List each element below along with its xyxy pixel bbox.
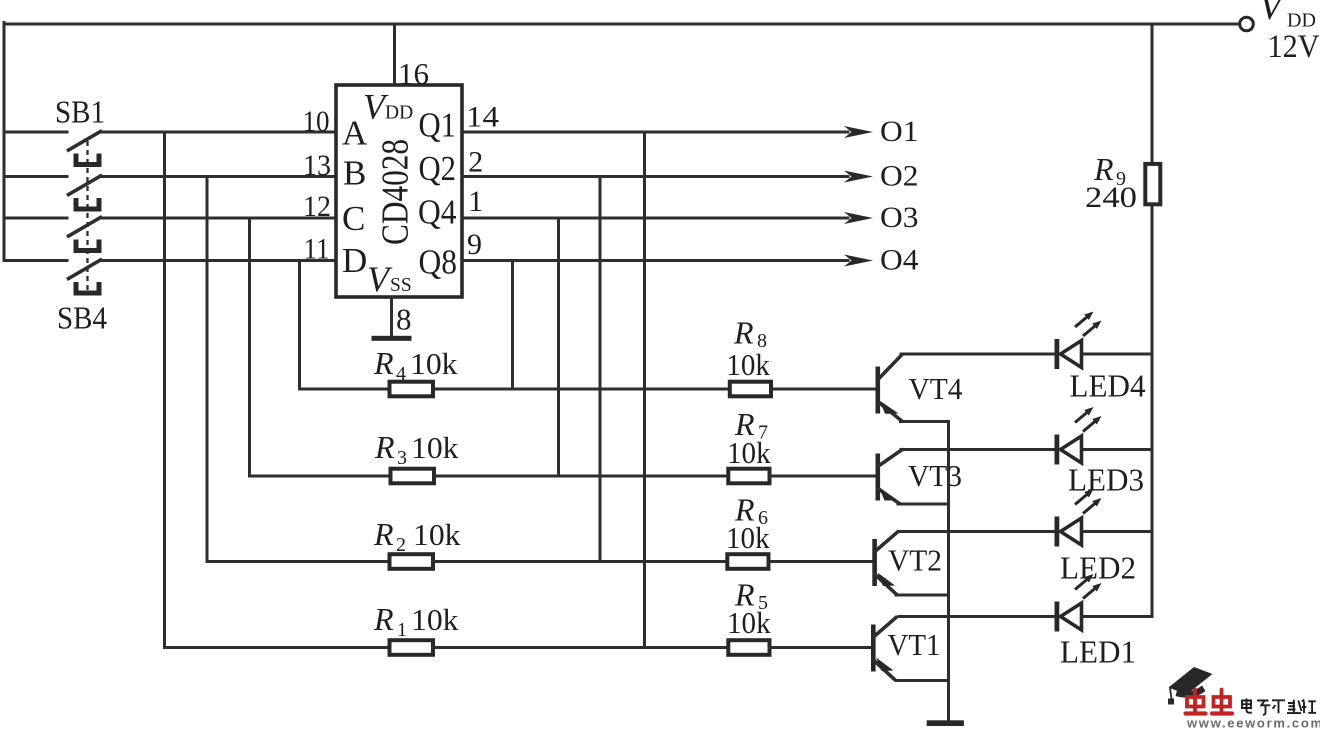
watermark logo: graduation cap xyxy=(1168,667,1213,705)
wire: +12V rail to R9 xyxy=(1151,24,1154,163)
wire: row R2 left xyxy=(207,560,390,563)
wire: R8 to VT4 base xyxy=(771,388,876,391)
label R5 xyxy=(734,577,768,615)
watermark text 虫虫 (drawn) xyxy=(1186,690,1233,714)
svg-text:2: 2 xyxy=(468,145,483,178)
transistor VT2 xyxy=(872,532,897,594)
svg-text:10k: 10k xyxy=(726,347,770,382)
IC U1 CD4028 body xyxy=(336,85,462,297)
svg-text:DD: DD xyxy=(385,103,413,124)
svg-text:O1: O1 xyxy=(880,115,919,148)
svg-text:CD4028: CD4028 xyxy=(375,139,417,245)
wire: pin 8 VSS to ground xyxy=(390,297,393,337)
wire: SB1 to IC pin A xyxy=(101,131,336,134)
ground xyxy=(927,720,964,726)
wire: VT2 collector to LED2 xyxy=(899,530,1055,533)
svg-text:2: 2 xyxy=(396,534,406,556)
svg-text:3: 3 xyxy=(397,447,407,469)
resistor R1 xyxy=(390,640,434,655)
wire: Q4 drop to R3 row xyxy=(557,218,560,476)
svg-text:C: C xyxy=(342,199,365,238)
svg-text:8: 8 xyxy=(396,302,412,337)
label R1 10k xyxy=(373,601,459,641)
IC pin label VSS xyxy=(367,259,412,299)
wire: pin 16 to +12V rail xyxy=(393,24,396,85)
svg-text:10k: 10k xyxy=(727,435,771,470)
wire: VT1 collector to LED1 xyxy=(899,615,1055,618)
watermark text 电子下载站 (drawn) xyxy=(1242,699,1316,715)
wire: ganged pushbutton link (dashed) xyxy=(86,141,88,294)
wire: Q2 drop to R2 row xyxy=(599,177,602,562)
LED LED3 xyxy=(1055,407,1102,465)
wire: emitter common rail xyxy=(947,422,950,722)
svg-text:4: 4 xyxy=(396,363,406,385)
wire: row R4 left xyxy=(300,388,391,391)
wire: Q2 output row xyxy=(462,171,873,183)
resistor R8 xyxy=(730,382,771,397)
svg-text:O3: O3 xyxy=(880,201,919,234)
svg-text:1: 1 xyxy=(397,619,407,641)
resistor R3 xyxy=(391,469,435,484)
resistor R7 xyxy=(728,469,769,484)
wire: LED1 anode to bus xyxy=(1082,615,1153,618)
wire: R6 to VT2 base xyxy=(769,560,875,563)
svg-text:12V: 12V xyxy=(1268,29,1320,65)
svg-text:10k: 10k xyxy=(413,517,461,552)
label R6 xyxy=(734,492,768,530)
wire: Q8 output row xyxy=(462,255,873,267)
svg-text:SB4: SB4 xyxy=(57,300,107,336)
wire: node C drop to R3 row xyxy=(248,218,251,476)
label R9 240 xyxy=(1085,151,1137,214)
pushbutton SB4 xyxy=(69,260,101,293)
wire: R7 to VT3 base xyxy=(770,475,877,478)
wire: VT4 emitter to rail xyxy=(901,420,949,423)
svg-text:O4: O4 xyxy=(880,244,919,277)
svg-text:10k: 10k xyxy=(411,602,459,637)
resistor R4 xyxy=(390,382,434,397)
svg-text:V: V xyxy=(1259,0,1286,28)
LED LED1 xyxy=(1055,574,1102,632)
ground (VSS pin 8) xyxy=(372,336,412,341)
wire: R2 to R6 xyxy=(433,560,728,563)
svg-text:R: R xyxy=(373,516,394,552)
label R2 10k xyxy=(373,516,461,556)
wire: Q4 output row xyxy=(462,212,873,224)
label R4 10k xyxy=(373,345,458,385)
wire: left supply rail xyxy=(3,23,6,261)
wire: VT3 emitter to rail xyxy=(898,503,949,506)
svg-text:LED4: LED4 xyxy=(1070,368,1146,404)
transistor VT1 xyxy=(871,618,896,680)
wire: Q1 output row xyxy=(462,126,873,138)
wire: +12V top rail xyxy=(4,23,1240,26)
svg-text:10: 10 xyxy=(303,105,330,138)
pushbutton SB2 xyxy=(69,176,101,209)
wire: node D drop to R4 row xyxy=(298,261,301,390)
wire: row C from rail to SB3 xyxy=(4,217,67,220)
wire: VT3 collector to LED3 xyxy=(901,448,1055,451)
svg-text:LED3: LED3 xyxy=(1068,462,1144,498)
wire: VT1 emitter to rail xyxy=(896,679,949,682)
svg-text:A: A xyxy=(342,113,368,152)
svg-text:16: 16 xyxy=(398,56,429,91)
IC pin label VDD xyxy=(363,87,413,127)
wire: row A from rail to SB1 xyxy=(4,131,67,134)
svg-text:R: R xyxy=(373,601,394,637)
wire: node A drop to R1 row xyxy=(163,132,166,648)
net label VDD 12V xyxy=(1259,0,1320,65)
wire: R5 to VT1 base xyxy=(770,646,875,649)
svg-text:SB1: SB1 xyxy=(55,94,105,130)
wire: VT2 emitter to rail xyxy=(896,594,949,597)
transistor VT4 xyxy=(876,355,902,420)
svg-text:www.eeworm.com: www.eeworm.com xyxy=(1186,716,1320,729)
svg-text:14: 14 xyxy=(466,101,499,134)
svg-text:10k: 10k xyxy=(411,430,459,465)
wire: LED3 anode to bus xyxy=(1082,448,1153,451)
wire: LED anode bus xyxy=(1151,204,1154,617)
svg-text:LED1: LED1 xyxy=(1060,634,1136,670)
svg-text:D: D xyxy=(342,241,367,280)
svg-text:R: R xyxy=(374,429,395,465)
wire: SB4 to IC pin D xyxy=(101,259,336,262)
wire: LED4 anode to bus xyxy=(1082,353,1153,356)
pushbutton SB1 xyxy=(69,132,101,165)
wire: Q8 drop to R4 row xyxy=(511,261,514,390)
VDD supply terminal xyxy=(1240,17,1254,31)
svg-text:Q1: Q1 xyxy=(419,106,457,145)
wire: VT4 collector to LED4 xyxy=(901,353,1055,356)
svg-text:LED2: LED2 xyxy=(1060,550,1136,586)
svg-text:VT3: VT3 xyxy=(908,458,962,493)
label R8 xyxy=(733,315,767,353)
wire: SB3 to IC pin C xyxy=(101,217,336,220)
svg-text:12: 12 xyxy=(303,190,331,223)
wire: Q1 drop to R1 row xyxy=(643,132,646,648)
svg-text:Q2: Q2 xyxy=(419,149,457,188)
svg-text:10k: 10k xyxy=(410,346,458,381)
wire: SB2 to IC pin B xyxy=(101,175,336,178)
label R3 10k xyxy=(374,429,459,469)
svg-text:Q8: Q8 xyxy=(419,243,458,282)
svg-text:VT2: VT2 xyxy=(888,543,942,578)
svg-text:9: 9 xyxy=(467,228,482,261)
svg-text:13: 13 xyxy=(303,149,331,182)
svg-text:Q4: Q4 xyxy=(418,193,457,232)
wire: row B from rail to SB2 xyxy=(4,175,67,178)
resistor R9 xyxy=(1145,164,1160,204)
svg-text:VT4: VT4 xyxy=(909,371,963,406)
svg-text:B: B xyxy=(343,154,366,193)
svg-text:1: 1 xyxy=(468,185,483,218)
svg-text:R: R xyxy=(373,345,394,381)
LED LED2 xyxy=(1055,489,1102,547)
label R7 xyxy=(734,406,768,444)
svg-text:10k: 10k xyxy=(726,520,770,555)
wire: node B drop to R2 row xyxy=(206,177,209,562)
wire: R1 to R5 xyxy=(433,646,729,649)
transistor VT3 xyxy=(876,450,902,503)
svg-text:VT1: VT1 xyxy=(888,627,941,662)
wire: row D from rail to SB4 xyxy=(4,259,67,262)
svg-text:240: 240 xyxy=(1085,181,1137,214)
wire: R4 to R8 xyxy=(433,388,731,391)
wire: row R3 left xyxy=(250,475,392,478)
wire: R3 to R7 xyxy=(434,475,729,478)
wire: row R1 left xyxy=(165,646,391,649)
svg-text:O2: O2 xyxy=(880,160,919,193)
resistor R5 xyxy=(728,640,769,655)
resistor R6 xyxy=(727,554,768,569)
svg-text:R: R xyxy=(733,315,754,351)
svg-text:11: 11 xyxy=(304,232,330,265)
wire: LED2 anode to bus xyxy=(1082,530,1153,533)
pushbutton SB3 xyxy=(69,218,101,251)
LED LED4 xyxy=(1055,312,1102,370)
resistor R2 xyxy=(390,554,434,569)
svg-text:SS: SS xyxy=(390,275,412,296)
svg-text:10k: 10k xyxy=(727,605,771,640)
